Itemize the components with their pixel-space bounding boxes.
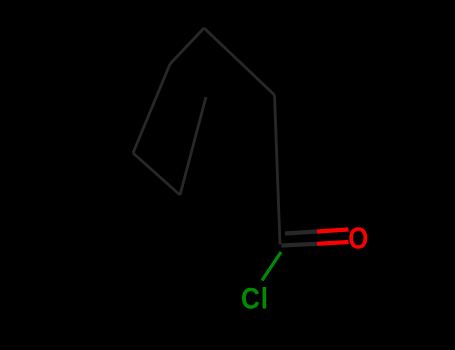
wire bond C7-C1a (apex upper-left segment) <box>170 28 204 64</box>
svg-text:O: O <box>348 220 368 254</box>
wire bond C1-C6 (lower-left diagonal) <box>133 153 180 195</box>
bond C=O lower line carbon half (dark) <box>282 244 318 246</box>
bond C-Cl (green) <box>262 252 281 281</box>
wire bond C6-C5 (methyl stub rising) <box>180 97 206 195</box>
bond C=O upper line oxygen half (red) <box>317 230 349 232</box>
wire bond C4-C2 (right vertical line to acyl junction) <box>275 95 281 245</box>
wire bond C7-C4 (apex right 45deg line) <box>204 28 275 95</box>
wire bond C1a-C1 (left long segment) <box>133 64 170 153</box>
bond C=O upper line carbon half (dark) <box>285 232 317 234</box>
svg-text:Cl: Cl <box>241 282 269 315</box>
bond C=O lower line oxygen half (red) <box>317 242 349 244</box>
